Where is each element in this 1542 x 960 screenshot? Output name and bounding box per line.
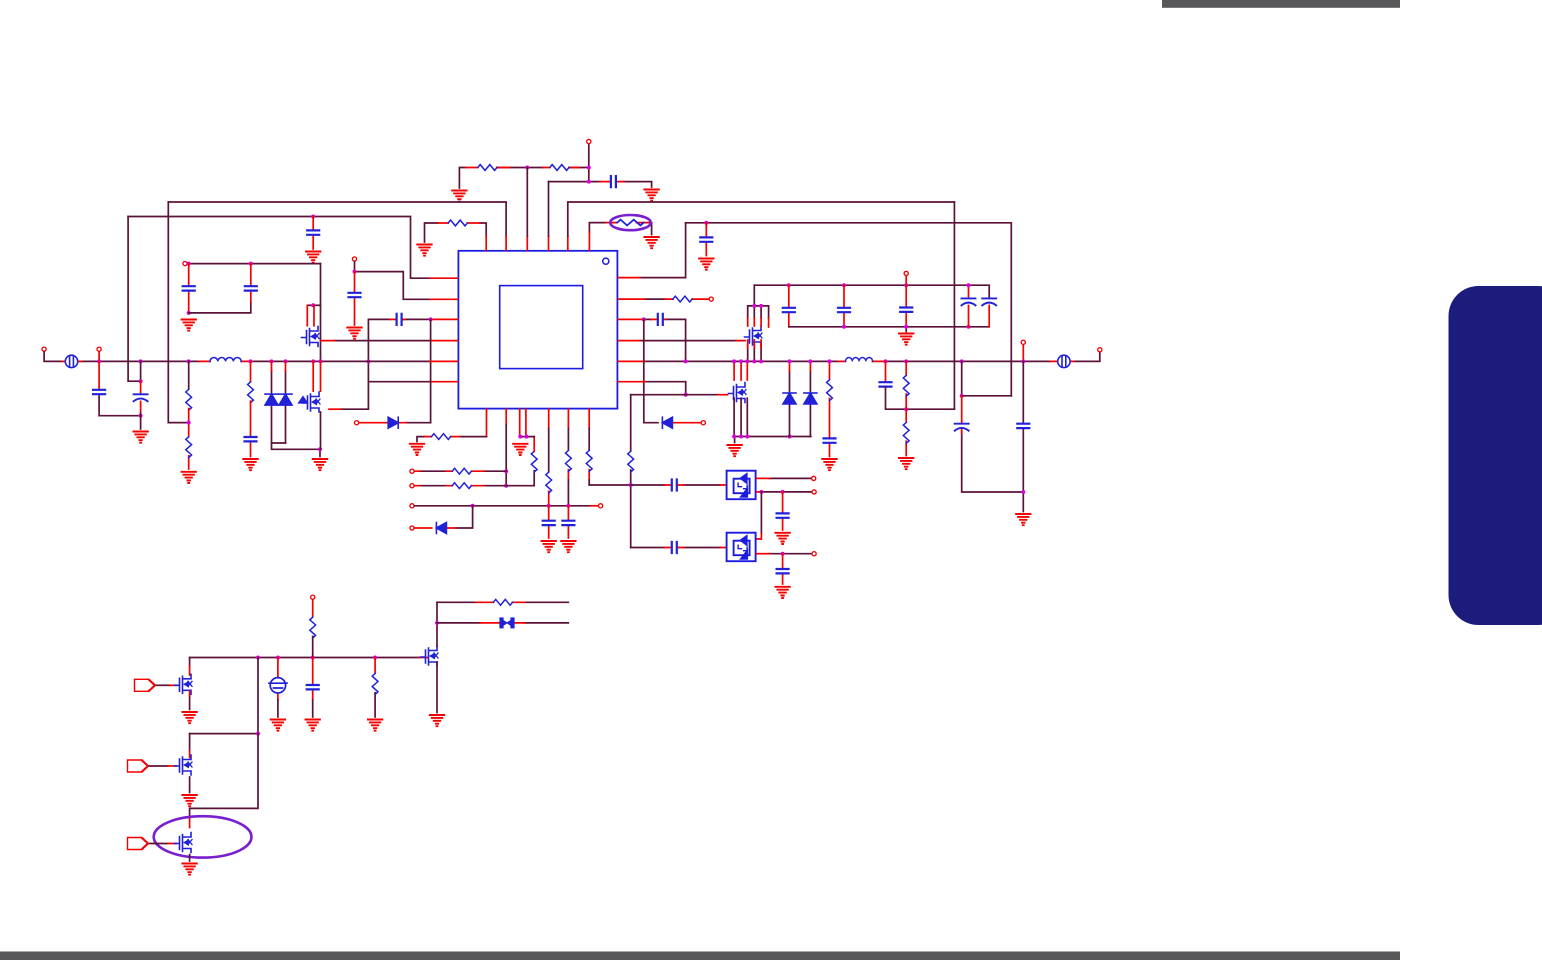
capacitor C9	[245, 437, 257, 441]
mosfet pack Q5	[727, 471, 756, 500]
resistor R18	[903, 375, 909, 396]
pin stub red C-row	[527, 182, 624, 251]
junction rail436 d	[788, 435, 792, 439]
pin P2 left block	[183, 262, 187, 266]
highlight ellipse H1	[610, 215, 651, 230]
diode D5	[783, 393, 796, 404]
wire R20 to rail1	[312, 636, 314, 657]
ground GND22	[775, 533, 789, 544]
junction bus x747	[745, 359, 749, 363]
pin P8 row2	[410, 484, 414, 488]
wire x258 to Q10	[190, 734, 258, 818]
pin stub red R17	[829, 361, 831, 456]
pin stub red C25	[782, 554, 784, 584]
pin stub red C12	[618, 318, 666, 320]
top gray bar	[1162, 0, 1400, 8]
resistor R2	[550, 165, 569, 171]
ground GND4	[699, 259, 713, 270]
ground GND14	[513, 444, 527, 455]
junction rail/C3	[704, 221, 708, 225]
pin stub red IC bottom pin1	[486, 409, 488, 437]
wire net R5 chain x188	[168, 202, 188, 423]
wire net C-row y181	[549, 182, 652, 187]
wire Q4 gate y394	[631, 394, 718, 396]
pin P13 D4	[701, 421, 705, 425]
pin P1 top supply	[587, 139, 591, 143]
junction rail505 x548	[547, 504, 551, 508]
transistor Q9	[175, 755, 193, 775]
wire rail y326	[789, 327, 989, 332]
wire net C4-C5 bottom y312	[189, 302, 251, 313]
pin stub red R7/C9	[250, 401, 252, 456]
junction rail285 x906	[904, 283, 908, 287]
junction Q3 box a	[752, 304, 756, 308]
capacitor C23	[777, 513, 789, 517]
pin stub red C22	[664, 484, 727, 486]
wire ellipse-resistor net y222	[589, 223, 651, 235]
capacitor C22	[672, 480, 677, 491]
wire net R15 y299	[645, 298, 665, 300]
wire rail y485 to pack1	[631, 484, 720, 486]
wire rail y222 right	[686, 223, 1012, 396]
pin stub red C10	[548, 506, 550, 538]
junction R5/R6	[187, 421, 191, 425]
resistor R16	[628, 451, 634, 472]
transistor Q8	[421, 646, 439, 666]
pin stub red Q6 in	[757, 534, 762, 539]
pin stub red Q9 gate	[168, 765, 176, 767]
junction rail505 x472	[471, 504, 475, 508]
capacitor C1	[611, 176, 616, 187]
wire net R22 y602	[437, 601, 568, 603]
junction bus x285	[284, 359, 288, 363]
pin stub red y340	[618, 340, 745, 342]
ground GND2	[644, 190, 658, 201]
ground GND6	[417, 245, 431, 256]
wire net D6 x810	[809, 371, 811, 437]
wire B1 to gnd	[277, 700, 279, 717]
wire vertical x320 to bus	[320, 264, 322, 362]
pin stub red R22	[476, 601, 525, 603]
diode D7 bidirectional	[500, 618, 514, 628]
capacitor C17 polarized	[982, 298, 996, 305]
junction pin3 rail	[518, 435, 522, 439]
transistor Q10	[175, 833, 193, 853]
transistor Q2	[299, 392, 321, 412]
pin P3 cap net	[352, 257, 356, 261]
connector J1	[135, 679, 156, 691]
pin stub red Q1-IC y340	[321, 340, 458, 342]
pin stub red R5-R6	[188, 409, 190, 469]
pin stub red Q1 top	[307, 305, 314, 326]
junction bus x250	[249, 359, 253, 363]
wire rail y547 to pack2	[631, 547, 720, 549]
pin stub red R21	[374, 658, 376, 674]
ground GND9	[133, 432, 147, 443]
wire IC top pin x527	[526, 168, 528, 237]
resistor R11 vertical	[531, 451, 537, 472]
pin P14 above C15	[904, 271, 908, 275]
inductor L2	[846, 358, 873, 362]
diode D8	[388, 417, 398, 428]
wire C8 to gnd	[140, 413, 142, 429]
resistor R20	[310, 617, 316, 638]
ground GND24	[182, 712, 196, 723]
ground GND12	[313, 459, 327, 470]
pin stub red ellipse-resistor	[589, 223, 648, 251]
pin stub red Q2 top	[313, 361, 320, 391]
blue side tab	[1449, 286, 1542, 625]
pin stub red Q4 gate	[718, 394, 728, 396]
diode D2	[279, 394, 292, 405]
junction bus x685	[684, 359, 688, 363]
junction Q8 drain y622	[435, 621, 439, 625]
pin P4 main input	[42, 347, 46, 351]
inductor L1	[210, 358, 241, 362]
wire IC right pin y277	[640, 223, 686, 278]
pin stub red D3	[414, 527, 455, 529]
junction gnd rail x319	[318, 447, 322, 451]
junction rail436 b	[739, 435, 743, 439]
pin stub red Q9 drain	[189, 751, 191, 758]
wire IC right y340 to Q3 gate	[640, 340, 736, 342]
pin stub red Q5 out2	[757, 491, 760, 493]
junction bus x761	[759, 359, 763, 363]
wire IC pin2 down x506	[505, 425, 507, 486]
wire net P3 y271	[355, 262, 431, 300]
capacitor C19	[880, 382, 892, 386]
pin stub red C24	[664, 547, 727, 549]
wire Q5 out2 y491	[760, 491, 812, 493]
resistor R8	[432, 434, 451, 440]
wire C26 to gnd	[312, 700, 314, 717]
junction bus x961	[960, 359, 964, 363]
resistor R13	[566, 451, 572, 472]
wire rail y436	[734, 437, 811, 443]
transistor Q1	[302, 327, 320, 347]
junction bus x1023	[1021, 359, 1025, 363]
wire R-row2 y223 left	[425, 223, 487, 242]
pin stub red bus2-IC	[430, 277, 458, 279]
junction bus x140	[139, 359, 143, 363]
pin stub red IC bottom pin6	[567, 409, 569, 480]
ground GND17	[899, 334, 913, 345]
wire net C12 y319	[644, 319, 686, 361]
junction bus x188	[187, 359, 191, 363]
junction bus x271	[270, 359, 274, 363]
pin P19 above R20	[311, 595, 315, 599]
wire net P2 y263	[188, 263, 321, 265]
wire x1023 down	[1022, 361, 1024, 511]
junction Q6 out x782	[781, 552, 785, 556]
junction C4/gnd	[187, 311, 191, 315]
resistor R1	[478, 165, 497, 171]
diode D4	[662, 417, 672, 428]
junction rail436 c	[745, 435, 749, 439]
resistor R9	[452, 468, 471, 474]
wire R11 top rail y436	[520, 436, 535, 438]
junction Q3 box b	[759, 304, 763, 308]
pin stub red B1	[277, 658, 279, 701]
wire Q2 source to x368	[341, 382, 368, 410]
pin stub red Q7 gate	[170, 684, 176, 686]
junction P2/C5	[249, 262, 253, 266]
capacitor C8 polarized	[134, 394, 148, 401]
pin stub red IC right y381	[618, 381, 645, 383]
bottom gray bar	[0, 952, 1400, 960]
ground GND25	[271, 720, 285, 731]
junction rail1 x312	[311, 656, 315, 660]
pin stub red row1	[415, 470, 485, 472]
capacitor C2	[307, 230, 319, 234]
ground GND20	[899, 458, 913, 469]
wire net D5 x789	[789, 371, 791, 437]
wire x961 down	[962, 361, 1024, 492]
wire net C27 y319 left	[368, 319, 430, 381]
pin stub red bus fuse2	[838, 360, 1074, 362]
pin stub red C19	[885, 361, 887, 381]
wire Q7 source	[189, 696, 191, 710]
pin stub red IC right y277	[618, 277, 640, 279]
resistor R22	[493, 599, 512, 605]
junction x961 y395	[960, 394, 964, 398]
junction P3/C6	[353, 270, 357, 274]
junction y409 x906	[904, 407, 908, 411]
wire net C7 x99	[99, 395, 141, 416]
junction rail326 x844	[842, 325, 846, 329]
wire net D3 y528	[455, 506, 473, 528]
pin stub red D5	[789, 361, 791, 371]
ground GND28	[430, 715, 444, 726]
wire Q2 bottom	[320, 412, 322, 449]
capacitor C26	[307, 685, 319, 689]
junction rail285 x788	[787, 283, 791, 287]
ground GND16	[561, 541, 575, 552]
resistor R3 highlighted	[617, 220, 643, 226]
pin stub red C20	[961, 396, 963, 433]
pin stub red R8	[425, 436, 460, 438]
junction rail1 x375	[373, 656, 377, 660]
pin stub red Q5 out1	[757, 477, 770, 479]
ground GND21	[1016, 514, 1030, 525]
ground GND30	[182, 864, 196, 875]
wire J3 to Q10 gate	[150, 843, 169, 845]
wire C19 bottom y409	[886, 387, 955, 409]
pin stub red C23	[782, 492, 784, 530]
wire x430 vertical	[430, 319, 432, 422]
transistor Q3	[745, 326, 763, 346]
capacitor C14	[838, 308, 850, 312]
resistor R19	[903, 423, 909, 444]
junction bus x734	[732, 359, 736, 363]
wire IC top pin x548	[548, 182, 550, 236]
wire IC left y381	[368, 381, 430, 383]
wire net R7 chain x250	[250, 361, 252, 381]
pin stub red R20	[312, 600, 314, 617]
pin stub red R-row2	[438, 223, 486, 250]
junction bus2/C2	[311, 215, 315, 219]
pin stub red P6	[98, 352, 100, 362]
pin stub red Q7 source	[189, 691, 191, 696]
pin stub red C3	[705, 223, 707, 256]
capacitor C6	[349, 293, 361, 297]
junction bus x906	[904, 359, 908, 363]
junction gate net x685	[684, 393, 688, 397]
transistor Q7	[175, 674, 193, 694]
wire Q8 drain up	[436, 602, 438, 646]
wire main bus y361	[44, 352, 1100, 362]
pin stub red D4	[673, 422, 701, 424]
junction bus x99	[97, 359, 101, 363]
junction row1 x506	[504, 469, 508, 473]
wire pin7 corner to x630	[589, 484, 631, 485]
pin P10 rail505 right	[599, 504, 603, 508]
capacitor C11	[562, 521, 574, 525]
wire bus1 right y202	[568, 202, 955, 236]
wire row2 y485	[420, 471, 534, 486]
capacitor C3	[700, 237, 712, 241]
pin stub red IC bottom pin2	[505, 409, 507, 425]
wire net D7 y622	[437, 622, 568, 624]
pin stub red R18	[905, 361, 907, 455]
ground GND18	[727, 445, 741, 456]
ground GND15	[542, 541, 556, 552]
diode D3	[436, 523, 446, 534]
junction rail285 x968	[967, 283, 971, 287]
pin stub red C27	[390, 318, 458, 320]
diode D6	[804, 393, 817, 404]
wire Q6 out y553	[770, 553, 812, 555]
wire net VCCTOP vertical	[588, 144, 590, 181]
junction rail436 a	[732, 435, 736, 439]
junction C27 x430	[429, 317, 433, 321]
pin stub red rail1 right	[419, 657, 428, 659]
ground GND8	[347, 328, 361, 339]
pin stub red D7	[480, 622, 525, 624]
junction x630 rail485	[629, 483, 633, 487]
junction bus x829	[828, 359, 832, 363]
pin stub red C8	[140, 381, 142, 413]
junction bus x368	[366, 359, 370, 363]
wire bus1 left y202	[168, 202, 506, 236]
junction pin4 rail	[525, 435, 529, 439]
pin stub red R11 top	[533, 437, 535, 452]
pin stub red bus fuse1	[62, 360, 645, 362]
pin stub red IC left y381	[430, 381, 458, 383]
wire rail y505	[415, 505, 591, 507]
pin stub red bus1-IC	[506, 236, 568, 250]
pin P6 above bus	[97, 347, 101, 351]
pin stub red C26	[312, 658, 314, 701]
junction P2/C4	[187, 262, 191, 266]
pin stub red C2	[312, 217, 314, 250]
capacitor C21	[1017, 424, 1029, 428]
ground GND23	[775, 587, 789, 598]
wire Q10 source	[189, 855, 191, 862]
resistor R12	[546, 472, 552, 493]
wire J1 to Q7 gate	[157, 684, 171, 686]
junction x1023 y492	[1021, 490, 1025, 494]
junction C-row	[587, 180, 591, 184]
junction bus x741	[739, 359, 743, 363]
capacitor C25	[777, 569, 789, 573]
fuse F2	[1058, 355, 1070, 367]
ground GND29	[182, 795, 196, 806]
transistor Q4	[729, 383, 747, 403]
pin P18 Q6 out	[812, 552, 816, 556]
capacitor C5	[245, 286, 257, 290]
pin stub red C17	[988, 306, 990, 327]
wire net R-row y167	[459, 168, 588, 189]
junction rail505 x568	[566, 504, 570, 508]
junction bus x320	[319, 359, 323, 363]
wire net R8 y436	[417, 437, 487, 442]
wire x630 down	[630, 395, 632, 548]
wire jog Q1 drain y305	[307, 304, 320, 306]
connector J3	[128, 838, 149, 850]
resistor R7	[248, 382, 254, 403]
capacitor C15	[900, 308, 912, 312]
pin P5 right of fuse2	[1098, 348, 1102, 352]
pin stub red C11	[567, 506, 569, 538]
pin stub red C7	[98, 361, 100, 389]
junction at R-row/IC pin	[525, 166, 529, 170]
junction C12 x643	[642, 317, 646, 321]
wire Q1 to IC y340	[335, 340, 431, 342]
wire Q9 source	[189, 777, 191, 793]
junction bus x789	[788, 359, 792, 363]
wire y395 to x1011	[962, 395, 1012, 397]
pin stub red IC bottom pin7	[588, 409, 590, 480]
capacitor C27	[397, 314, 402, 325]
junction rail326 x906	[904, 325, 908, 329]
pin P16 Q5 out1	[812, 476, 816, 480]
wire rail1 y657	[190, 657, 419, 659]
ground GND13	[410, 444, 424, 455]
pin stub red C14	[843, 285, 845, 327]
pin stub red D8	[359, 422, 406, 424]
junction C7/C8	[139, 414, 143, 418]
mosfet pack Q6	[727, 533, 756, 562]
wire net D1 branch x271	[271, 371, 273, 443]
pin stub red C5	[250, 264, 252, 302]
junction bus x754	[752, 359, 756, 363]
capacitor C16 polarized	[962, 298, 976, 305]
chip U1	[458, 251, 617, 409]
capacitor C10	[543, 521, 555, 525]
pin P15 above bus x1023	[1021, 340, 1025, 344]
junction y733 x258	[256, 732, 260, 736]
pin stub red C6	[354, 272, 356, 325]
pin stub red Q6 out	[757, 553, 770, 555]
resistor R10	[452, 483, 471, 489]
ground GND11	[243, 459, 257, 470]
wire diode bottoms to gnd rail	[272, 443, 321, 457]
wire Q5 out1 y478	[770, 477, 811, 479]
ground GND26	[306, 720, 320, 731]
pin stub red P15	[1022, 345, 1024, 362]
diode D1	[265, 394, 278, 405]
pin stub red Q10 drain	[189, 818, 191, 828]
pin stub red C13	[788, 285, 790, 327]
wire bus2 y216	[128, 217, 430, 279]
capacitor C4	[183, 286, 195, 290]
ground GND5	[644, 237, 658, 248]
pin stub red R15	[618, 298, 709, 300]
junction rail285 x844	[842, 283, 846, 287]
capacitor C24	[672, 542, 677, 553]
pin stub red rail505 right	[590, 505, 598, 507]
